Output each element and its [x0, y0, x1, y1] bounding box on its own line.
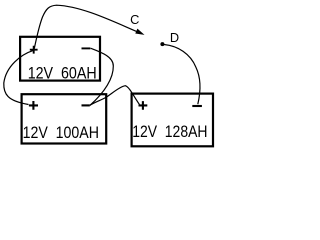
- svg-text:C: C: [130, 12, 139, 27]
- battery B2 + terminal: [29, 101, 38, 110]
- battery B1 (12V 60AH) box: [20, 37, 100, 81]
- svg-text:12V 100AH: 12V 100AH: [23, 123, 99, 142]
- wire W2: B1 + terminal left arc down to B2 + terminal: [4, 51, 33, 105]
- svg-text:12V 60AH: 12V 60AH: [28, 64, 97, 82]
- battery B2 - terminal: [82, 104, 90, 106]
- wire W1: B1 + terminal up over the top to point C: [34, 5, 138, 48]
- battery B2 (12V 100AH) box: [22, 94, 107, 143]
- svg-text:D: D: [170, 30, 179, 45]
- battery B3 + terminal: [139, 101, 148, 110]
- wire W4: B2 - terminal arc up-right to B3 + terminal: [90, 86, 140, 106]
- svg-text:12V 128AH: 12V 128AH: [132, 122, 207, 141]
- battery B1 - terminal: [82, 47, 91, 49]
- node dot D: [160, 42, 164, 46]
- battery B3 (12V 128AH) box: [132, 94, 213, 147]
- wire W3: B1 - terminal arc right/down to B2 - terminal: [90, 48, 114, 105]
- battery B3 - terminal: [192, 105, 202, 107]
- wire W5: point D curving down to B3 - terminal: [164, 45, 200, 105]
- arrowhead at C: [136, 30, 143, 35]
- battery B1 + terminal: [30, 46, 38, 54]
